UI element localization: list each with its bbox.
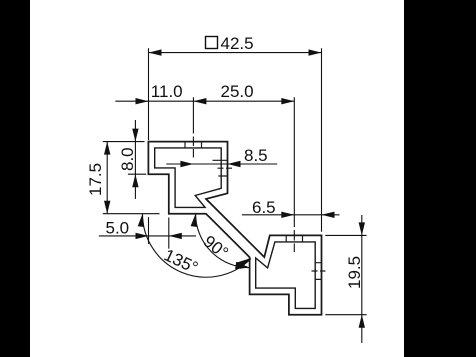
screw channel ticks top wall of bottom block <box>286 235 302 242</box>
extension line y=174.2 left <box>128 173 146 175</box>
svg-text:19.5: 19.5 <box>345 256 364 289</box>
screw channel ticks top wall <box>185 141 202 148</box>
extension line x=148.5 below for 5.0 <box>148 217 150 244</box>
screw channel ticks right wall of top block <box>213 160 228 176</box>
extension line y=213.7 left <box>103 213 160 215</box>
left black pillar bar <box>0 0 30 357</box>
screw channel ticks right wall of bottom block <box>315 263 322 280</box>
extension centerline x=193.4 dash-dot <box>192 97 194 157</box>
svg-text:8.0: 8.0 <box>118 147 137 171</box>
arrowhead arc135 end <box>237 258 251 269</box>
extension line right edge from top <box>321 48 323 232</box>
arrowhead 25.0 right <box>281 98 294 104</box>
arrowhead 6.5 right <box>322 212 335 218</box>
extension line y=141.6 left <box>103 141 145 143</box>
arrowhead 6.5 left <box>281 212 294 218</box>
arrowhead 5.0 left <box>136 233 149 239</box>
svg-text:17.5: 17.5 <box>86 163 105 196</box>
arrowhead 8.0 top <box>132 129 138 142</box>
arrowhead 19.5 top <box>359 222 365 235</box>
profile top cavity <box>155 148 222 208</box>
extension line x=168.8 below for 5.0 <box>168 218 170 249</box>
extension line y=314.7 right for 19.5 <box>325 314 366 316</box>
dimension line 8.0 tails <box>134 120 136 199</box>
extension centerline x=294.3 dash-dot <box>293 97 295 252</box>
square symbol of 42.5 <box>206 37 218 49</box>
screw channel dashdot right wall of top block <box>218 167 233 169</box>
arrowhead 11.0 <box>136 98 149 104</box>
dimension line 17.5 <box>106 142 108 214</box>
dimension line 5.0 tails <box>99 235 196 237</box>
profile outer contour <box>148 142 321 315</box>
arc 90 degrees <box>196 214 250 268</box>
extension line left edge from top <box>148 48 150 140</box>
arrowhead 17.5 bottom <box>104 201 110 214</box>
arc 135 degrees <box>143 214 251 277</box>
dimension line 6.5 <box>242 214 340 216</box>
arrowhead arc90 end <box>235 262 249 270</box>
screw channel dashdot right wall of bottom block <box>312 270 326 272</box>
extension line y=235.4 right for 19.5 <box>325 234 366 236</box>
profile bottom cavity <box>256 242 316 309</box>
arrowhead 8.5 right <box>228 161 241 167</box>
svg-text:8.5: 8.5 <box>244 146 268 165</box>
arrowhead 19.5 bottom <box>359 315 365 328</box>
svg-text:135°: 135° <box>161 245 201 277</box>
svg-text:90°: 90° <box>200 232 232 263</box>
svg-text:5.0: 5.0 <box>106 219 130 238</box>
dimension line 19.5 tails <box>361 215 363 343</box>
dimension line 42.5 <box>149 52 322 54</box>
arrowhead 8.5 left <box>180 161 193 167</box>
arrowhead 17.5 top <box>104 142 110 155</box>
arrowhead 8.0 bottom <box>132 174 138 187</box>
arrowhead arc90 start <box>191 214 197 227</box>
svg-text:42.5: 42.5 <box>221 34 254 53</box>
dimension line 11.0 and 25.0 <box>115 100 294 102</box>
right black pillar bar <box>404 0 476 357</box>
svg-text:6.5: 6.5 <box>252 198 276 217</box>
svg-text:11.0: 11.0 <box>151 82 183 101</box>
arrowhead arc135 start <box>138 214 144 227</box>
dimension line 8.5 <box>166 163 277 165</box>
arrowhead 42.5 left <box>149 49 162 55</box>
svg-text:25.0: 25.0 <box>221 82 254 101</box>
arrowhead 5.0 right <box>169 233 182 239</box>
arrowhead 42.5 right <box>309 49 322 55</box>
arrowhead 25.0 left <box>193 98 206 104</box>
